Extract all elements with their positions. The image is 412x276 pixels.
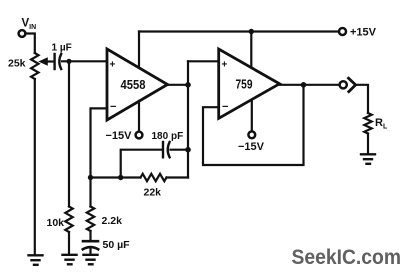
resistor R3 2.2k (87, 207, 122, 232)
svg-text:22k: 22k (144, 187, 162, 199)
svg-text:RL: RL (375, 117, 388, 131)
wire node C to 22k (121, 176, 141, 178)
svg-text:2.2k: 2.2k (102, 215, 123, 227)
wire 22k right to vertical feedback line (167, 176, 189, 178)
node C junction dot (118, 175, 123, 180)
wire C1 to opamp noninverting input (62, 60, 107, 62)
wire U2 V- pin down (251, 100, 253, 131)
wire jack to RL (356, 85, 368, 113)
wire node A down to 10k (68, 61, 70, 206)
svg-text:−: − (222, 101, 228, 113)
node G junction dot U2 output (301, 82, 307, 88)
node -15V terminal of U2 (238, 131, 265, 153)
wire C2 to node D (171, 149, 189, 151)
node F junction dot on rail (249, 29, 254, 34)
wire node B to node C feedback row (91, 176, 121, 178)
svg-text:−15V: −15V (238, 141, 265, 153)
wire VIN to pot top (26, 34, 35, 54)
wire U1 output to node E (168, 84, 189, 86)
svg-text:180 pF: 180 pF (152, 131, 184, 142)
wire top rail +15V (139, 30, 339, 32)
node +15V terminal (339, 26, 377, 38)
svg-text:VIN: VIN (22, 18, 37, 32)
node VIN terminal (19, 18, 37, 37)
svg-text:+: + (110, 60, 116, 71)
op-amp U2 759 (219, 49, 280, 118)
capacitor C3 50uF (83, 239, 130, 251)
capacitor C2 180pF (152, 131, 184, 157)
svg-text:25k: 25k (8, 58, 26, 70)
svg-text:10k: 10k (47, 217, 65, 229)
node B junction dot (88, 175, 93, 180)
wire pot bottom to ground (34, 79, 36, 254)
wire 2.2k to C3 (89, 231, 91, 240)
resistor R1 25k potentiometer (8, 53, 54, 79)
wire node C up to C2 branch (121, 150, 162, 178)
resistor R2 10k (47, 207, 73, 233)
wire U2 output to node G (280, 84, 304, 86)
svg-text:50 µF: 50 µF (103, 239, 131, 251)
wire vertical feedback line on U1 output (187, 61, 189, 177)
node -15V terminal of U1 (106, 130, 143, 142)
svg-text:759: 759 (236, 77, 253, 92)
wire node G to output jack (304, 84, 340, 86)
op-amp U1 4558 (107, 49, 168, 120)
svg-text:+15V: +15V (350, 26, 377, 38)
svg-text:−: − (110, 101, 116, 113)
ground GND3 (84, 255, 98, 264)
svg-text:+: + (222, 60, 228, 71)
wire RL to ground (367, 134, 369, 154)
wire node B to 2.2k (89, 178, 91, 207)
ground GND1 (29, 255, 43, 264)
ground GND4 (361, 154, 375, 164)
wire U1 V+ pin to top rail (138, 32, 140, 68)
svg-text:4558: 4558 (121, 77, 146, 92)
svg-text:1 µF: 1 µF (52, 43, 72, 54)
resistor R4 22k (141, 174, 167, 199)
node A junction dot after C1 (66, 59, 71, 64)
wire 10k to ground (68, 232, 70, 254)
wire U1 inverting input to feedback node B (91, 108, 108, 177)
node output jack connector (340, 78, 356, 91)
capacitor C1 1uF (52, 43, 72, 70)
wire U2 feedback loop (203, 85, 304, 165)
resistor RL load (364, 113, 388, 134)
wire node E to U2 noninverting input (188, 60, 219, 62)
wire U2 V+ pin from rail (250, 32, 252, 68)
svg-text:SeekIC.com: SeekIC.com (292, 245, 402, 269)
wire C3 to ground (89, 249, 91, 254)
ground GND2 (63, 255, 77, 264)
wire U1 V- pin down (138, 101, 140, 132)
svg-text:−15V: −15V (106, 130, 133, 142)
node D junction dot (185, 147, 191, 153)
node E junction dot U1 output (185, 82, 191, 88)
